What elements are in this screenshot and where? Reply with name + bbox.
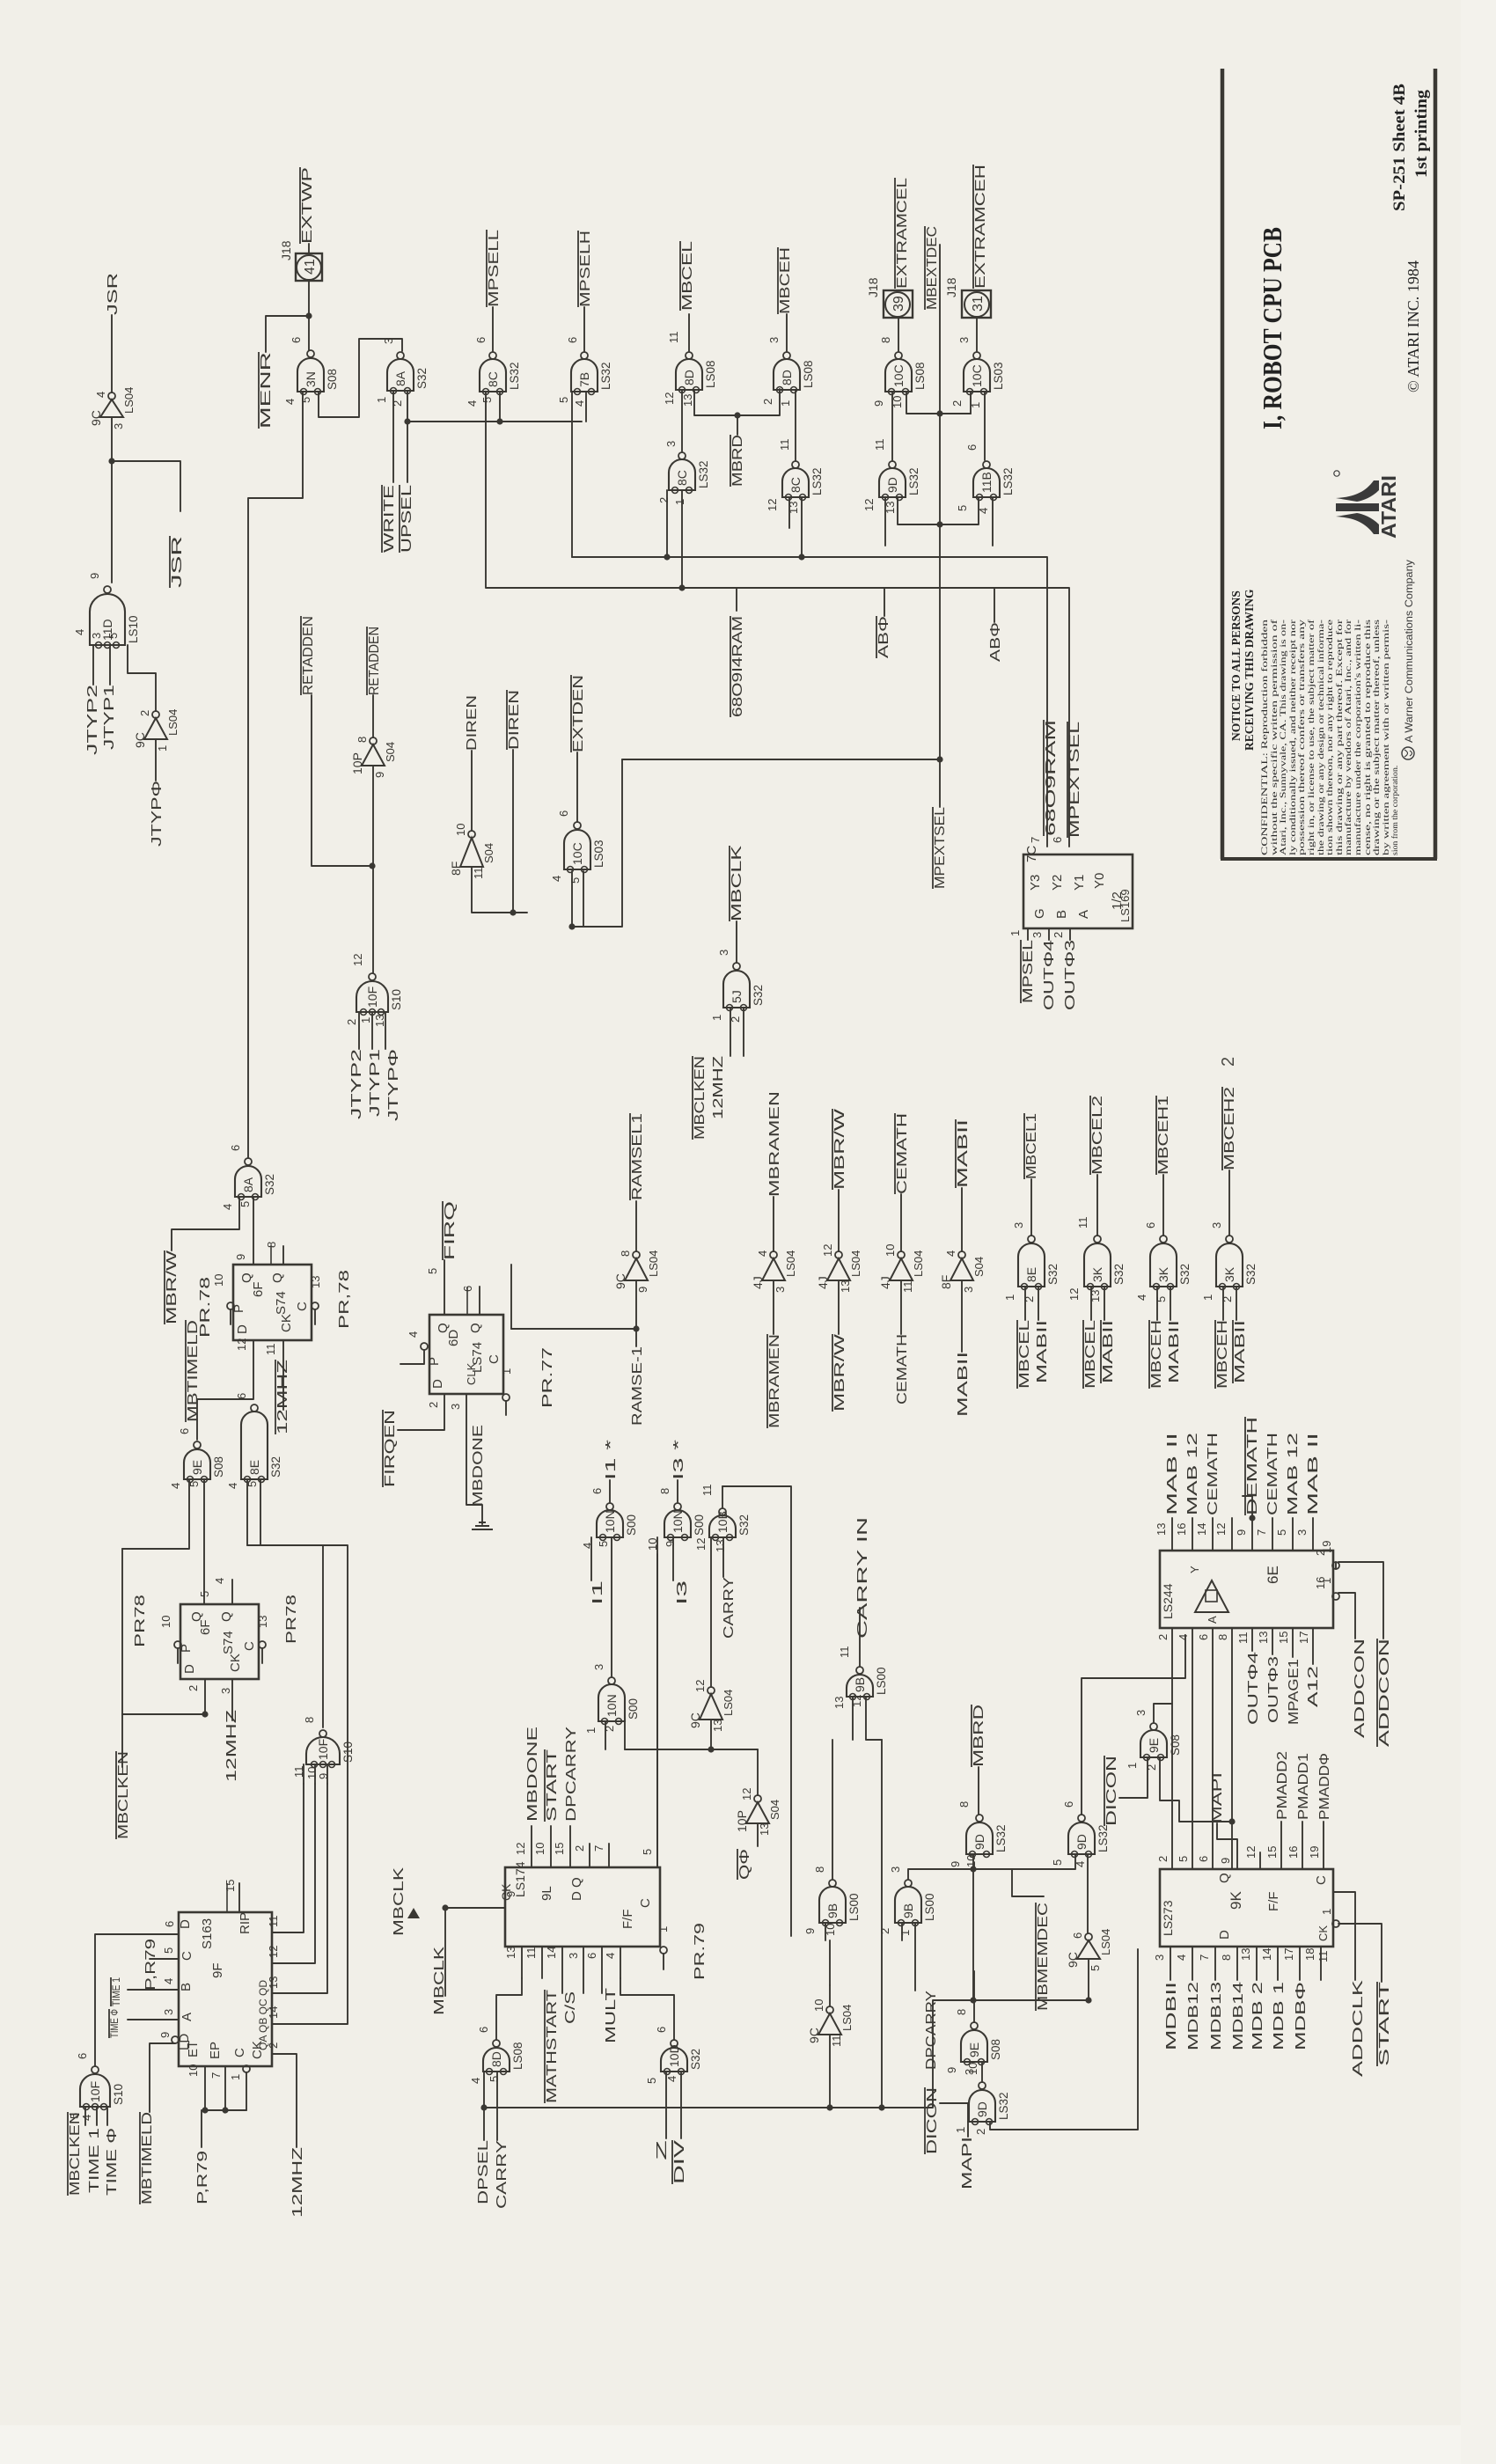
svg-text:2: 2 (1156, 1634, 1170, 1640)
wire J18-39 to 10C (898, 318, 899, 351)
svg-text:RAMSE-1: RAMSE-1 (630, 1346, 645, 1426)
svg-text:MATHSTART: MATHSTART (545, 1990, 560, 2103)
svg-text:MDBΦ: MDBΦ (1294, 1982, 1309, 2050)
svg-text:9: 9 (504, 1891, 517, 1897)
svg-text:MDB 1: MDB 1 (1272, 1982, 1287, 2050)
svg-text:START: START (545, 1749, 560, 1822)
wire 9L CK pin9 MBCLK (445, 1907, 505, 1909)
inverter 8F S04 MAB11 pins 4,3 (939, 1250, 986, 1293)
svg-text:LS04: LS04 (722, 1690, 735, 1716)
svg-text:LS32: LS32 (994, 1824, 1008, 1852)
svg-text:S32: S32 (1178, 1264, 1192, 1285)
svg-text:4: 4 (1074, 1861, 1087, 1867)
wire inverter to JTYP0 (155, 739, 157, 781)
svg-text:S08: S08 (989, 2039, 1002, 2060)
svg-text:4J: 4J (751, 1276, 765, 1289)
node JSR label (106, 273, 121, 315)
svg-text:12: 12 (740, 1788, 753, 1800)
svg-text:10: 10 (454, 824, 467, 836)
svg-text:ET: ET (186, 2041, 201, 2057)
svg-text:right in, or license to use, t: right in, or license to use, the subject… (1307, 619, 1316, 855)
svg-text:LS00: LS00 (847, 1893, 861, 1921)
wire J18-37 to 10C (976, 318, 978, 351)
wire 9E.5 down to 6F second Q (203, 1479, 205, 1604)
svg-text:4: 4 (213, 1578, 226, 1584)
svg-text:6: 6 (290, 337, 303, 343)
nand gate 10F S10 first pins 5,4 out 6 (80, 2066, 110, 2110)
svg-text:EXTWP: EXTWP (300, 167, 315, 244)
wire J18-41 up to EXTWP (308, 244, 310, 253)
svg-text:4: 4 (466, 400, 479, 407)
svg-text:9C: 9C (807, 2028, 821, 2043)
node MBCEH2 label (1222, 1087, 1237, 1170)
svg-text:S00: S00 (693, 1514, 706, 1536)
svg-text:3: 3 (774, 1287, 787, 1293)
svg-text:LS32: LS32 (508, 362, 521, 390)
wire 9L bottom pins (521, 1947, 523, 1978)
svg-text:C/S: C/S (563, 1991, 578, 2024)
svg-text:2: 2 (187, 1685, 200, 1691)
svg-text:MAPI: MAPI (1210, 1772, 1225, 1823)
svg-text:10B: 10B (715, 1511, 730, 1533)
svg-text:J18: J18 (866, 277, 880, 297)
svg-text:9C: 9C (133, 732, 147, 748)
svg-text:Z: Z (655, 2139, 670, 2160)
svg-text:DIREN: DIREN (465, 695, 480, 751)
svg-text:LS32: LS32 (1001, 467, 1015, 495)
node I1star label (604, 1440, 619, 1480)
svg-text:CK: CK (279, 1314, 294, 1332)
svg-text:EXTRAMCEL: EXTRAMCEL (895, 178, 910, 289)
svg-text:6E: 6E (1265, 1566, 1281, 1584)
svg-text:A Warner Communications Compan: A Warner Communications Company (1404, 560, 1415, 743)
svg-text:6: 6 (1071, 1932, 1084, 1939)
wire 9F QB pin13 up (272, 1784, 327, 1993)
wire 10D out to 9L pin4 (620, 1978, 674, 2040)
svg-text:11: 11 (700, 1485, 714, 1497)
svg-text:LS08: LS08 (913, 362, 927, 390)
svg-text:11: 11 (267, 1916, 280, 1928)
svg-text:LS169: LS169 (1118, 889, 1132, 922)
svg-text:MBEXTDEC: MBEXTDEC (925, 226, 940, 310)
wire MBCLK to 5J (736, 921, 737, 963)
svg-text:8F: 8F (939, 1275, 953, 1289)
svg-text:OUTΦ4: OUTΦ4 (1042, 940, 1057, 1010)
IC 9F S163 counter box (179, 1912, 272, 2066)
connector J18 pin 39 EXTRAMCEL (866, 277, 913, 318)
svg-text:S10: S10 (390, 989, 403, 1010)
buffer symbol inside 6E (1188, 1566, 1228, 1624)
svg-text:13: 13 (1257, 1632, 1270, 1644)
svg-text:OUTΦ3: OUTΦ3 (1063, 940, 1078, 1010)
svg-text:12: 12 (351, 954, 364, 966)
svg-text:PMADD1: PMADD1 (1296, 1753, 1311, 1820)
svg-text:S00: S00 (627, 1698, 640, 1720)
wire 6E bottom data pins to 9K (1171, 1628, 1173, 1869)
svg-text:MABII: MABII (1233, 1320, 1248, 1383)
inverter 10P S04 second pins 12,13 (735, 1788, 781, 1836)
svg-text:9B: 9B (853, 1677, 867, 1692)
svg-text:1: 1 (954, 2127, 967, 2133)
svg-text:ADDCON: ADDCON (1353, 1639, 1368, 1738)
svg-text:C: C (487, 1354, 502, 1364)
wire QPhi horizontal (625, 1749, 758, 1750)
svg-text:9E: 9E (967, 2042, 981, 2057)
wire 10C.9 to 9D out (891, 392, 893, 460)
wire DEMATH junction (1249, 1514, 1255, 1521)
wire 6D Qbar pin6 stub (479, 1287, 480, 1315)
wire MBMEMDEC branch (1012, 1869, 1044, 1896)
svg-text:6: 6 (477, 2027, 490, 2033)
svg-text:6: 6 (178, 1428, 191, 1434)
svg-text:1: 1 (1320, 1909, 1333, 1915)
IC 6F S74 flip flop box (233, 1265, 312, 1340)
node MBCLK label second (432, 1947, 447, 2015)
svg-text:P: P (427, 1357, 442, 1366)
svg-text:7: 7 (1029, 837, 1042, 843)
or gate 9B LS00 third pins 2,1 out 3 (895, 1880, 921, 1926)
svg-text:4: 4 (604, 1953, 617, 1959)
wire 8C pin5 stub (499, 392, 501, 422)
svg-text:4: 4 (665, 2076, 678, 2082)
wire 9D.13 horizontal to 11B.5 (898, 497, 979, 524)
wire 9K top pins numbers (1156, 1856, 1170, 1862)
svg-text:MABII: MABII (956, 1352, 971, 1417)
svg-text:2: 2 (1314, 1550, 1327, 1556)
svg-text:5: 5 (299, 397, 312, 403)
svg-text:MBCEH: MBCEH (1215, 1320, 1230, 1389)
svg-text:10F: 10F (316, 1739, 330, 1760)
svg-text:MBRD: MBRD (730, 435, 745, 487)
svg-text:6: 6 (229, 1145, 242, 1151)
wire 6F2 CK pin 3 12MHZ (231, 1679, 233, 1720)
svg-text:4: 4 (1177, 1634, 1190, 1640)
svg-text:2: 2 (1219, 1057, 1238, 1067)
svg-text:17: 17 (1297, 1632, 1310, 1644)
node C/S label (563, 1991, 578, 2024)
svg-text:MBCLK: MBCLK (730, 845, 744, 921)
svg-text:9: 9 (949, 1861, 962, 1867)
svg-text:3K: 3K (1156, 1266, 1170, 1282)
svg-text:6: 6 (557, 810, 570, 817)
or gate 10D S32 pins 5,4 out 6 (661, 2040, 687, 2075)
wire 9L C pin1 PR.79 (660, 1947, 667, 1954)
wire 8A pin1 to WRITE (392, 391, 394, 482)
wire 6D D pin2 FIRQEN (398, 1394, 444, 1430)
node MAB11 top label (956, 1119, 971, 1188)
svg-text:9: 9 (88, 573, 101, 579)
svg-text:CARRY: CARRY (495, 2140, 510, 2209)
wire 9C5 in to bus B2 (1088, 1959, 1089, 2000)
inverter 4J LS04 MBRAMEN pins 4,3 (751, 1250, 797, 1293)
wire 9B2 input stubs (825, 1923, 826, 1940)
svg-text:9: 9 (1219, 1858, 1232, 1864)
wire 9L top pin12 MBDONE (531, 1826, 532, 1867)
wire JSR branch stub (112, 461, 180, 511)
wire 8D.13 to 8D MBCEH pin2 with MBRD node (694, 389, 780, 415)
node DIREN label overlined (507, 690, 522, 750)
wire vertical from uPEXTSEL to 10C LS03 inputs (572, 759, 622, 927)
svg-text:C: C (180, 1951, 194, 1961)
svg-text:10: 10 (159, 1616, 172, 1628)
inverter 9C LS04 third pins 13,12 (688, 1680, 735, 1732)
svg-text:MABII: MABII (1035, 1320, 1050, 1383)
svg-text:OUTΦ3: OUTΦ3 (1266, 1656, 1281, 1723)
svg-text:MBMEMDEC: MBMEMDEC (1036, 1903, 1051, 2011)
svg-text:I1: I1 (590, 1580, 605, 1605)
svg-text:1st printing: 1st printing (1413, 89, 1431, 178)
svg-text:A: A (180, 2013, 194, 2021)
svg-text:S74: S74 (221, 1631, 236, 1654)
svg-text:ADDCLK: ADDCLK (1351, 1979, 1366, 2077)
node Z label (655, 2139, 670, 2160)
wire CARRY IN label stub (859, 1608, 861, 1667)
node AB0bar label (876, 616, 891, 658)
svg-text:10: 10 (884, 1244, 897, 1257)
svg-text:LS03: LS03 (992, 362, 1005, 390)
and gate 9D LS32 pins 12,13 out 11 (879, 461, 906, 501)
svg-text:8: 8 (879, 337, 892, 343)
svg-text:S32: S32 (737, 1514, 751, 1536)
node TIME0 label bottom left (105, 2128, 120, 2196)
wire 8C.1 down to trunk Tb (681, 490, 683, 588)
wire 9F QA pin14 up to 8E (247, 1545, 348, 2024)
wire uPEXTSEL horizontal to MBEXTDEC trunk (622, 759, 940, 760)
wire 6F CK pin 11 to 12MHZ (282, 1340, 284, 1410)
node START label (545, 1749, 560, 1822)
wire 9F QC pin12 up (272, 1784, 315, 1963)
svg-text:9C: 9C (688, 1712, 702, 1728)
and gate 8C LS32 pins 2,1 out 3 (669, 452, 695, 494)
svg-text:6: 6 (965, 444, 979, 451)
svg-text:2: 2 (878, 1928, 891, 1934)
svg-text:CARRY IN: CARRY IN (855, 1517, 870, 1639)
svg-text:DPCARRY: DPCARRY (564, 1727, 579, 1822)
svg-text:10F: 10F (365, 986, 379, 1008)
SP-251 Sheet 4B text (1391, 84, 1409, 211)
svg-text:CEMATH: CEMATH (895, 1113, 910, 1194)
svg-text:QΦ: QΦ (737, 1849, 752, 1880)
wire MBEXTDEC trunk lower (939, 414, 941, 759)
svg-text:PMADD2: PMADD2 (1275, 1751, 1290, 1820)
svg-text:D Q: D Q (569, 1877, 584, 1901)
svg-text:JTYPΦ: JTYPΦ (386, 1049, 401, 1121)
svg-text:MBDONE: MBDONE (471, 1425, 486, 1507)
svg-text:P,R79: P,R79 (195, 2151, 210, 2204)
svg-text:9D: 9D (885, 477, 899, 493)
svg-text:3: 3 (963, 2069, 976, 2075)
svg-text:ADDCON: ADDCON (1377, 1639, 1392, 1747)
svg-text:12: 12 (1244, 1846, 1258, 1859)
node FIRQEN label (383, 1410, 398, 1487)
svg-text:S04: S04 (972, 1257, 986, 1277)
node TIME1 label bottom left (87, 2128, 102, 2193)
wire 9C4 out up to 9B (829, 1985, 831, 2006)
svg-text:10: 10 (212, 1274, 225, 1287)
svg-text:2: 2 (427, 1402, 440, 1408)
svg-text:3N: 3N (304, 371, 318, 387)
node MBDONE label (471, 1425, 486, 1507)
svg-text:11: 11 (472, 868, 485, 880)
svg-text:A: A (1076, 910, 1091, 919)
svg-text:68O9RAM: 68O9RAM (1044, 720, 1059, 836)
node EXTRAMCEH label (973, 165, 988, 289)
svg-text:39: 39 (891, 296, 906, 312)
svg-text:J18: J18 (279, 240, 293, 260)
svg-text:6: 6 (590, 1488, 604, 1494)
node MBRW top label (832, 1108, 847, 1190)
node 6809 4RAM label (730, 616, 745, 717)
svg-text:3K: 3K (1222, 1266, 1236, 1282)
wire JSR net to inverter 9C (111, 315, 113, 392)
node ADDCLK label (1351, 1979, 1366, 2077)
svg-text:8E: 8E (1024, 1267, 1038, 1282)
svg-text:Q: Q (219, 1611, 234, 1622)
svg-text:2: 2 (1156, 1856, 1170, 1862)
wire 7C bottom pin3 OUT04 (1048, 928, 1050, 940)
svg-text:JSR: JSR (170, 536, 185, 588)
wire 9F C pin5 PR79 (150, 1958, 179, 1960)
svg-text:G: G (1032, 908, 1047, 919)
svg-text:12: 12 (766, 499, 779, 511)
wire 8E.5 to 10F out net (260, 1479, 323, 1727)
svg-text:11: 11 (264, 1344, 277, 1356)
svg-text:S32: S32 (1046, 1264, 1060, 1285)
node MBCLK label arrow (392, 1867, 407, 1936)
svg-text:6F: 6F (198, 1619, 213, 1635)
node EXTWP label (300, 167, 315, 244)
svg-text:RAMSEL1: RAMSEL1 (630, 1113, 645, 1200)
svg-text:LS04: LS04 (849, 1250, 862, 1277)
svg-text:1: 1 (1126, 1763, 1139, 1769)
wire 6F C pin 13 PR78 (312, 1302, 319, 1309)
svg-text:10: 10 (812, 1999, 825, 2012)
wire 9F LD pin9 MBTIMELD (172, 2036, 179, 2043)
svg-text:3: 3 (1134, 1710, 1148, 1716)
svg-text:6: 6 (585, 1953, 598, 1959)
node MAPI label second (960, 2137, 975, 2189)
wire 5J input stubs (730, 1008, 731, 1056)
ground symbol under 6D (472, 1522, 493, 1529)
wire I3star stub (677, 1480, 678, 1502)
wire 10P2 out up (757, 1749, 759, 1795)
wire 9K bottom data pins MDB (1170, 1947, 1171, 1980)
svg-text:3: 3 (382, 338, 395, 344)
notice block heading (1229, 589, 1256, 751)
svg-text:EXTDEN: EXTDEN (571, 675, 586, 752)
wire I1star stub (609, 1480, 611, 1502)
wire right long vertical (881, 1740, 883, 2108)
svg-text:S04: S04 (482, 843, 495, 863)
node I3 label (675, 1580, 690, 1605)
svg-text:10N: 10N (671, 1510, 685, 1533)
svg-text:11: 11 (873, 439, 886, 451)
svg-text:EP: EP (208, 2042, 223, 2059)
svg-text:1: 1 (156, 745, 169, 752)
wire 10F inputs from 9F outputs (303, 1764, 304, 1784)
svg-text:PR.79: PR.79 (693, 1923, 708, 1980)
node DPCARRY label (924, 1991, 939, 2070)
svg-text:9D: 9D (975, 2101, 989, 2117)
svg-text:5: 5 (1089, 1965, 1102, 1971)
wire 9L top pin7 stub (608, 1844, 610, 1867)
node PR79 label (143, 1939, 158, 1991)
or gate 9D LS32 second pins 5,4 out 6 (1068, 1815, 1095, 1858)
wire 9D1 out up to 6E pin area (1082, 1635, 1185, 1815)
svg-text:ΜPSELL: ΜPSELL (487, 230, 502, 307)
svg-text:MBR/W: MBR/W (832, 1333, 847, 1412)
inverter 9C second (LS04) pins 2,1 (133, 709, 180, 752)
svg-text:8: 8 (955, 2009, 968, 2015)
notice block paragraph (1260, 619, 1400, 855)
svg-text:10C: 10C (570, 842, 584, 865)
svg-text:MBR/W: MBR/W (165, 1250, 180, 1324)
svg-text:11: 11 (830, 2035, 843, 2048)
node ADDCON overlined label (1377, 1639, 1392, 1747)
svg-text:MDB14: MDB14 (1231, 1982, 1246, 2050)
node 12MHZ label (711, 1056, 726, 1119)
svg-text:C: C (638, 1898, 653, 1908)
svg-text:11: 11 (1316, 1951, 1330, 1963)
svg-text:S10: S10 (112, 2084, 125, 2105)
node CEMATH top label (895, 1113, 910, 1194)
node CARRY IN label (855, 1517, 870, 1639)
node PR.77 label at 6D (540, 1347, 555, 1408)
wire 10C.10 to MBEXTDEC junction (906, 392, 971, 414)
node PR78 second left label (133, 1595, 148, 1647)
node OUT03 label (1063, 940, 1078, 1010)
wire 9E1.1 DICON (1119, 1757, 1148, 1798)
svg-text:F/F: F/F (620, 1910, 635, 1930)
svg-text:9D: 9D (972, 1834, 986, 1850)
svg-text:12MHZ: 12MHZ (224, 1710, 239, 1782)
svg-text:2: 2 (761, 399, 774, 405)
svg-text:LS32: LS32 (1096, 1824, 1110, 1852)
svg-text:9K: 9K (1228, 1891, 1244, 1910)
node DIREN label plain (465, 695, 480, 751)
svg-text:MBCEL1: MBCEL1 (1024, 1113, 1039, 1179)
wire RAMSEL1 out (635, 1201, 637, 1251)
svg-text:CK: CK (228, 1654, 243, 1672)
wire 10P out to RETADDEN2 (372, 695, 374, 737)
svg-text:NOTICE TO ALL PERSONS: NOTICE TO ALL PERSONS (1229, 590, 1243, 741)
svg-text:Y0: Y0 (1092, 873, 1107, 889)
svg-text:S04: S04 (384, 742, 397, 762)
border bottom line of title strip (1434, 69, 1438, 859)
node CARRY label (722, 1577, 737, 1639)
svg-text:13: 13 (832, 1697, 846, 1709)
svg-text:8C: 8C (675, 470, 689, 486)
svg-text:S32: S32 (415, 368, 429, 389)
node MAPI label (1210, 1772, 1225, 1823)
svg-text:12MHZ: 12MHZ (711, 1056, 726, 1119)
svg-text:12: 12 (693, 1680, 707, 1692)
wire 9F pin15 RIP stub (238, 1883, 240, 1912)
svg-text:13: 13 (309, 1276, 322, 1288)
svg-text:3: 3 (889, 1866, 902, 1873)
svg-text:3: 3 (90, 633, 103, 639)
node JTYP0 label at 10F (386, 1049, 401, 1121)
svg-text:4J: 4J (878, 1276, 892, 1289)
svg-text:S08: S08 (212, 1456, 225, 1478)
svg-text:START: START (1377, 1982, 1392, 2066)
svg-text:3: 3 (592, 1664, 605, 1670)
wire 10N2.10 long to 9L pin5 (656, 1537, 658, 1867)
svg-text:MBCEL: MBCEL (1083, 1320, 1098, 1389)
wire 7C pin7 bubble (1029, 837, 1042, 843)
border top line of title strip (1221, 69, 1225, 859)
svg-text:10C: 10C (891, 364, 906, 387)
